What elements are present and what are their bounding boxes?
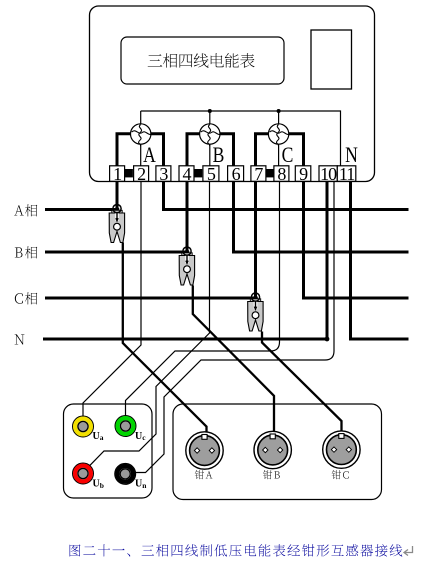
meter element C current coil wire left (terminal) [256,134,269,166]
caption 图二十一 [70,544,403,557]
meter element B current coil wire left (terminal) [187,134,200,166]
terminal 1 box [110,164,125,184]
phase letter A [143,143,156,167]
terminal 9 box [295,164,311,184]
meter display window [311,30,352,89]
cable clamp A to connector 钳A [123,243,207,434]
svg-text:A: A [143,143,156,167]
phase letter B [213,143,225,167]
wire neutral N line (source side) [43,338,327,341]
meter element C voltage tap wire down to terminal [278,144,280,166]
connector 钳C [323,431,360,479]
wire terminal 4 down to phase B [186,181,189,252]
wire terminal 3 to phase A load side [164,181,409,209]
meter element B voltage tap wire down to terminal [209,144,211,166]
meter element A current coil wire right (terminal) [151,134,164,166]
terminal 11 box [337,164,356,184]
tester voltage input box [64,404,153,498]
junction node neutral / terminal 10 [325,337,330,342]
label A相 [14,204,37,216]
svg-text:a: a [100,433,104,442]
phase letter C [282,143,294,167]
meter element A voltage tap wire up to bus [140,111,142,124]
clamp CT B on phase B [179,247,194,285]
svg-text:1: 1 [113,164,121,184]
wire terminal 10 down to neutral [326,181,329,339]
meter element B current coil wire right (terminal) [220,134,234,166]
wire phase B line (source side) [45,251,187,254]
voltage link 7-8 (black link) [266,169,274,177]
svg-text:U: U [135,479,142,490]
clamp CT C on phase C [248,293,263,331]
svg-text:7: 7 [254,164,263,184]
wire terminal 5 to Ub [90,181,210,466]
terminal Uc (green) [115,416,146,442]
svg-text:9: 9 [299,164,308,184]
wire terminal 11 to neutral load side [351,181,409,339]
terminal 3 box [156,164,171,184]
junction node phase C / clamp C [253,296,258,301]
junction dot bus-B [208,109,212,113]
svg-text:U: U [135,431,142,442]
svg-text:6: 6 [232,164,241,184]
label B相 [15,246,37,258]
cable clamp B to connector 钳B [193,286,274,433]
tester clamp input box [173,404,382,500]
svg-text:10: 10 [320,164,337,184]
meter element C coil circle [268,124,290,146]
meter element B coil circle [200,124,222,146]
label N [15,334,25,344]
connector 钳A [186,432,223,479]
energy meter M1 case [90,6,375,182]
junction node phase A / clamp A [115,207,120,212]
wire voltage bus to terminal 11 [141,111,341,166]
terminal 2 box [134,164,149,184]
svg-text:U: U [93,431,100,442]
clamp CT A on phase A [109,205,124,243]
meter element C current coil wire right (terminal) [289,134,304,166]
terminal 4 box [179,164,194,184]
wire terminal 6 to phase B load side [234,181,409,252]
meter element A coil circle [131,124,153,146]
connector 钳B [254,431,291,479]
svg-text:11: 11 [339,164,354,184]
svg-text:b: b [100,481,104,490]
wire terminal 7 down to phase C [254,181,257,298]
meter nameplate label 三相四线电能表 [148,53,255,68]
meter nameplate box [121,37,284,84]
wire terminal 10 to Un [136,181,334,472]
label C相 [15,292,37,304]
wire terminal 8 to Uc [126,181,280,415]
svg-text:4: 4 [183,164,192,184]
wire terminal 2 to Ua [83,181,141,416]
svg-text:2: 2 [137,164,145,184]
terminal 10 box [319,164,337,184]
meter element C voltage tap wire up to bus [278,111,280,124]
terminal 7 box [251,164,266,184]
wire phase C line (source side) [45,297,256,300]
svg-text:8: 8 [277,164,286,184]
terminal Ua (yellow) [73,416,104,442]
terminal 5 box [203,164,219,184]
wire terminal 9 to phase C load side [304,181,409,298]
terminal Un (black) [115,464,147,490]
voltage link 4-5 (black link) [194,169,202,177]
voltage link 1-2 (black link) [125,169,133,177]
wire terminal 1 down to phase A [116,181,119,209]
meter element A current coil wire left (terminal) [117,134,131,166]
svg-text:3: 3 [159,164,168,184]
phase letter N [345,143,358,167]
svg-text:5: 5 [207,164,216,184]
paragraph mark [404,546,413,556]
terminal Ub (red) [73,463,104,490]
meter element B voltage tap wire up to bus [209,111,211,124]
junction dot bus-C [277,109,281,113]
terminal 6 box [228,164,244,184]
junction node phase B / clamp B [185,250,190,255]
cable clamp C to connector 钳C [262,332,342,436]
meter element A voltage tap wire down to terminal [140,144,142,166]
terminal 8 box [274,164,289,184]
svg-text:U: U [93,479,100,490]
wire phase A line (source side) [45,208,117,211]
